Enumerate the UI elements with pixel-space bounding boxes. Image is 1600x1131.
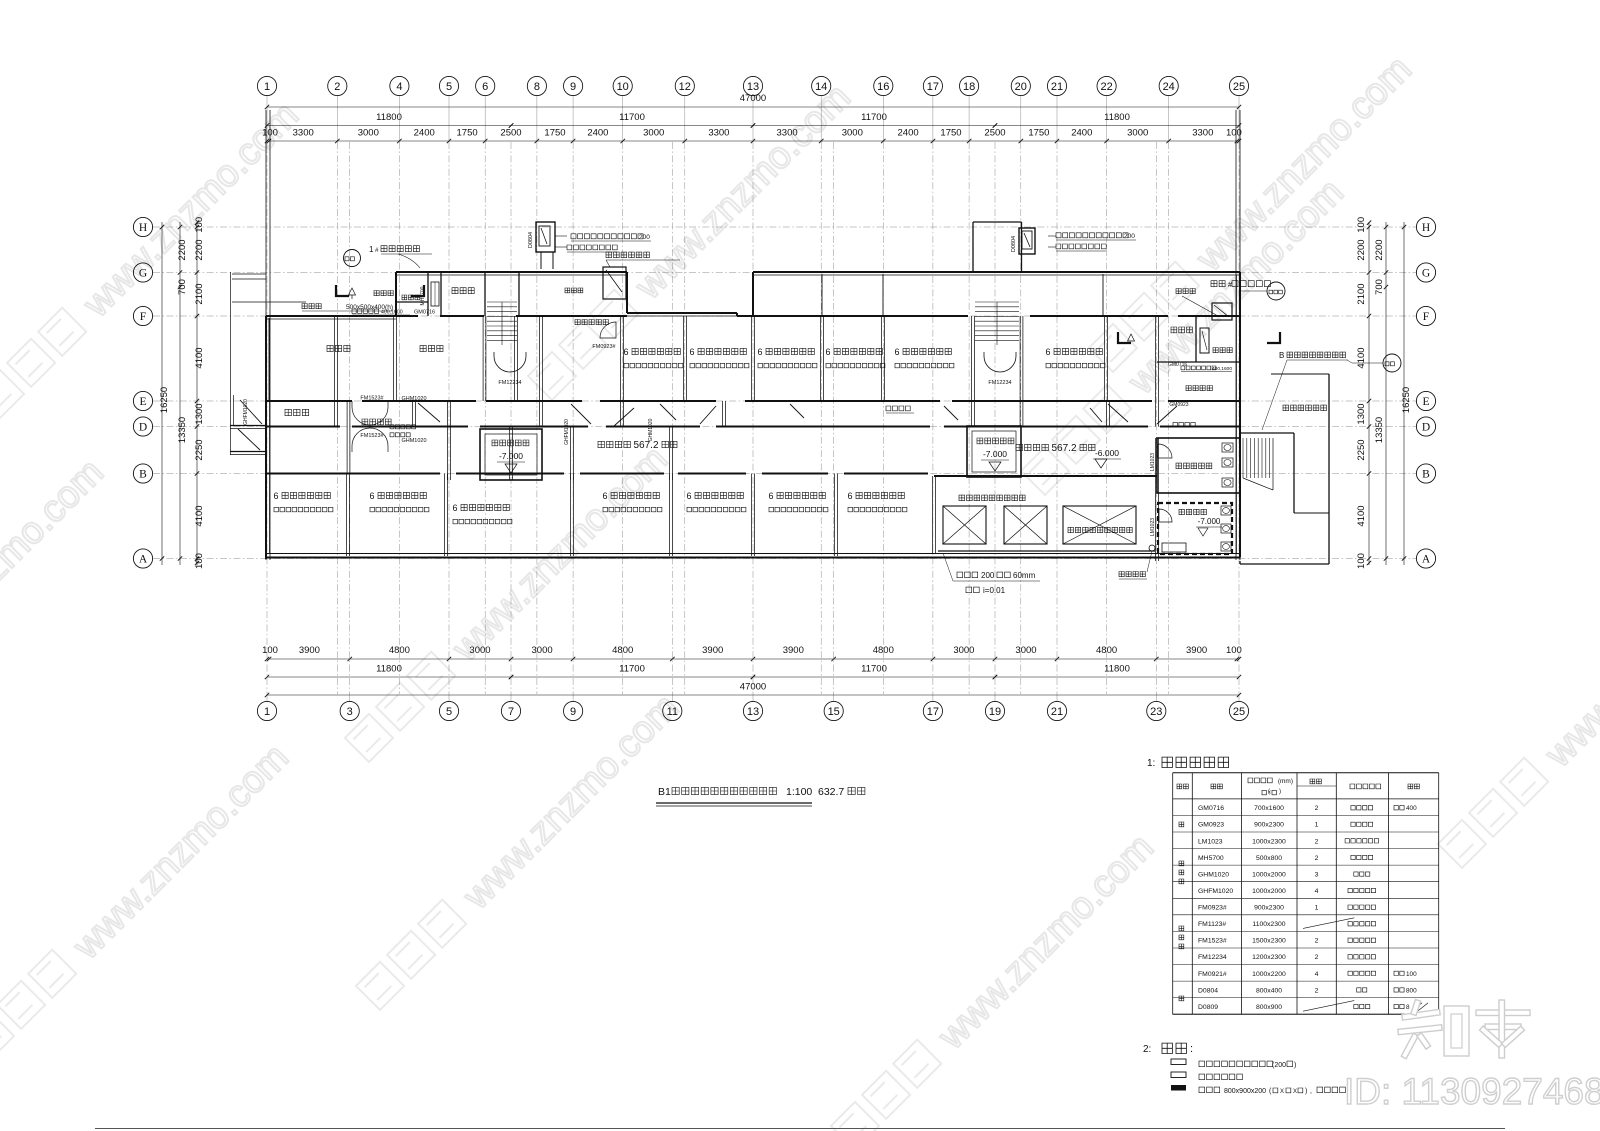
upper-center vent labels xyxy=(571,234,643,239)
svg-text:24: 24 xyxy=(1163,81,1175,93)
svg-text:10: 10 xyxy=(617,81,629,93)
svg-text:400,1600: 400,1600 xyxy=(1212,366,1232,372)
svg-text:15: 15 xyxy=(828,706,840,718)
svg-text:23: 23 xyxy=(1150,706,1162,718)
svg-text:5: 5 xyxy=(446,706,452,718)
svg-text:700x1600: 700x1600 xyxy=(1254,805,1284,812)
svg-text:11800: 11800 xyxy=(376,112,402,123)
svg-text:LM1023: LM1023 xyxy=(1150,518,1156,536)
B-A bottom room partitions xyxy=(346,474,348,557)
svg-text:GM0716: GM0716 xyxy=(1198,805,1224,812)
svg-text:1000x2000: 1000x2000 xyxy=(1252,888,1286,895)
svg-text:GHM1020: GHM1020 xyxy=(1198,871,1229,878)
vent shaft axis 8-9 xyxy=(536,222,555,252)
svg-text:LM1023: LM1023 xyxy=(1150,453,1156,471)
svg-text:2500: 2500 xyxy=(500,128,521,139)
svg-text:567.2: 567.2 xyxy=(633,440,658,451)
svg-text:3900: 3900 xyxy=(783,645,804,656)
stair core axes 18-20 doglegs xyxy=(972,222,974,272)
svg-text:GHM1020: GHM1020 xyxy=(401,396,426,402)
svg-text:13350: 13350 xyxy=(1374,417,1385,443)
svg-text:D: D xyxy=(139,422,147,434)
svg-text:6: 6 xyxy=(847,491,852,501)
svg-text:6: 6 xyxy=(452,503,457,513)
svg-text:MH5700: MH5700 xyxy=(1198,855,1224,862)
svg-text:-6.000: -6.000 xyxy=(1095,448,1119,458)
svg-text:632.7: 632.7 xyxy=(818,786,844,798)
svg-text:FM12234: FM12234 xyxy=(988,380,1011,386)
svg-text:19: 19 xyxy=(989,706,1001,718)
svg-text:F: F xyxy=(1423,311,1429,323)
svg-text:G: G xyxy=(1422,268,1430,280)
svg-text:FM1523#: FM1523# xyxy=(360,396,384,402)
drain labels xyxy=(957,572,978,578)
svg-text:11700: 11700 xyxy=(861,112,887,123)
svg-text:GHFM1020: GHFM1020 xyxy=(243,399,249,425)
svg-text:1750: 1750 xyxy=(940,128,961,139)
svg-text:25: 25 xyxy=(1233,706,1245,718)
grid horizontal axis lines xyxy=(153,226,1416,228)
svg-text:3000: 3000 xyxy=(953,645,974,656)
corridor labels xyxy=(362,419,391,425)
svg-text:FM1523#: FM1523# xyxy=(1198,938,1227,945)
blast cable shaft label xyxy=(606,252,649,258)
diagonal watermark layer (under drawing) xyxy=(0,93,307,424)
svg-text:4100: 4100 xyxy=(194,505,205,526)
svg-text:9: 9 xyxy=(570,706,576,718)
toilet room male (dashed wartime) xyxy=(1158,503,1232,554)
svg-text:GM0716: GM0716 xyxy=(414,310,435,316)
protection unit labels xyxy=(598,441,630,447)
svg-text:(mm): (mm) xyxy=(1278,778,1293,785)
svg-text:2: 2 xyxy=(1315,838,1319,845)
svg-text:FM12234: FM12234 xyxy=(1198,954,1227,961)
svg-text:2250: 2250 xyxy=(194,439,205,460)
svg-text:4: 4 xyxy=(396,81,402,93)
svg-text:6: 6 xyxy=(686,491,691,501)
svg-text:3900: 3900 xyxy=(299,645,320,656)
svg-text:200: 200 xyxy=(981,571,995,580)
interior walls: row F-E partitions xyxy=(334,316,336,401)
top axis bubbles xyxy=(257,76,276,95)
section cut marks right pair xyxy=(1118,332,1131,343)
svg-text:6: 6 xyxy=(894,347,899,357)
svg-text:6: 6 xyxy=(623,347,628,357)
svg-text:200: 200 xyxy=(1124,233,1135,240)
svg-text:GHFM1020: GHFM1020 xyxy=(564,419,570,445)
elevator pit 1 xyxy=(480,429,542,480)
svg-text:3300: 3300 xyxy=(777,128,798,139)
svg-text:3900: 3900 xyxy=(702,645,723,656)
svg-text:GM0923: GM0923 xyxy=(1169,402,1188,408)
svg-text:11800: 11800 xyxy=(376,664,402,675)
svg-text:FM1123#: FM1123# xyxy=(1198,921,1226,928)
B wall segments (room tops) xyxy=(266,473,440,475)
svg-text:X: X xyxy=(1293,1089,1297,1095)
svg-text:2200: 2200 xyxy=(1374,239,1385,260)
svg-text:4100: 4100 xyxy=(194,347,205,368)
svg-text:G: G xyxy=(139,268,147,280)
svg-text:60mm: 60mm xyxy=(1013,571,1036,580)
svg-text:2400: 2400 xyxy=(414,128,435,139)
svg-text:GHFM1020: GHFM1020 xyxy=(1198,888,1233,895)
svg-text:-7.000: -7.000 xyxy=(499,451,523,461)
svg-text:2:: 2: xyxy=(1143,1044,1151,1055)
svg-text:700: 700 xyxy=(1374,279,1385,295)
svg-text:100: 100 xyxy=(194,553,205,569)
svg-text:100: 100 xyxy=(1226,128,1242,139)
bottom separator line xyxy=(95,1128,1505,1130)
svg-text:9: 9 xyxy=(570,81,576,93)
svg-text:1300: 1300 xyxy=(194,403,205,424)
svg-text:2: 2 xyxy=(334,81,340,93)
svg-text:47000: 47000 xyxy=(740,93,766,104)
left vertical dimension chains xyxy=(161,222,163,565)
svg-text:#: # xyxy=(375,247,379,254)
svg-text:400,1600: 400,1600 xyxy=(381,310,403,316)
svg-text:GM0923: GM0923 xyxy=(1198,822,1224,829)
svg-text:D0804: D0804 xyxy=(1198,987,1218,994)
bottom dimension chains xyxy=(267,658,1239,660)
svg-text:13: 13 xyxy=(747,706,759,718)
svg-text:2: 2 xyxy=(1315,954,1319,961)
svg-text:16: 16 xyxy=(877,81,889,93)
svg-text:1: 1 xyxy=(369,245,374,254)
svg-text::: : xyxy=(1190,1043,1193,1055)
svg-text:FM12234: FM12234 xyxy=(498,380,521,386)
svg-text:D0809: D0809 xyxy=(1198,1004,1218,1011)
svg-text:17: 17 xyxy=(927,81,939,93)
svg-text:100: 100 xyxy=(1356,553,1367,569)
znzmo logo bottom right xyxy=(1402,1009,1440,1020)
svg-text:7: 7 xyxy=(508,706,514,718)
svg-text:1750: 1750 xyxy=(1028,128,1049,139)
svg-text:3300: 3300 xyxy=(708,128,729,139)
svg-text:16250: 16250 xyxy=(1401,387,1412,413)
svg-text:12: 12 xyxy=(679,81,691,93)
room labels top row xyxy=(327,345,350,351)
svg-text:3: 3 xyxy=(347,706,353,718)
stair double doors FM1223 xyxy=(494,352,510,372)
svg-text:100: 100 xyxy=(1406,971,1417,978)
svg-text:4100: 4100 xyxy=(1356,505,1367,526)
svg-text:11700: 11700 xyxy=(861,664,887,675)
left axis bubbles xyxy=(133,217,152,236)
svg-text:700: 700 xyxy=(177,279,188,295)
svg-text:x: x xyxy=(1268,790,1271,796)
svg-text:13350: 13350 xyxy=(177,417,188,443)
svg-text:100: 100 xyxy=(262,645,278,656)
sump label 集水坑500x500x400(h) xyxy=(302,304,321,309)
svg-text:D0804: D0804 xyxy=(528,232,534,248)
svg-text:2200: 2200 xyxy=(194,239,205,260)
svg-text:A: A xyxy=(1422,554,1431,566)
svg-text:1: 1 xyxy=(264,706,270,718)
svg-text:B: B xyxy=(1422,469,1430,481)
svg-text:900x2300: 900x2300 xyxy=(1254,822,1284,829)
svg-text:4800: 4800 xyxy=(389,645,410,656)
svg-text:3000: 3000 xyxy=(643,128,664,139)
svg-text:i=0.01: i=0.01 xyxy=(983,586,1006,595)
svg-text:6: 6 xyxy=(768,491,773,501)
zone D-B partial walls xyxy=(447,427,449,481)
svg-text:6: 6 xyxy=(757,347,762,357)
svg-text:1000x2200: 1000x2200 xyxy=(1252,971,1286,978)
svg-text:6: 6 xyxy=(1045,347,1050,357)
svg-text:800x400: 800x400 xyxy=(1256,987,1282,994)
svg-text:LM1023: LM1023 xyxy=(1198,838,1223,845)
svg-text:18: 18 xyxy=(963,81,975,93)
svg-text:1: 1 xyxy=(1315,905,1319,912)
svg-text:11800: 11800 xyxy=(1104,664,1130,675)
svg-text:11700: 11700 xyxy=(619,112,645,123)
svg-text:FM1523#: FM1523# xyxy=(360,433,384,439)
corridor short partitions xyxy=(334,401,336,427)
svg-text:1200x2300: 1200x2300 xyxy=(1252,954,1286,961)
svg-text:17: 17 xyxy=(927,706,939,718)
svg-text:GM0716: GM0716 xyxy=(1168,362,1187,368)
vent shaft axis 18-20 xyxy=(1019,228,1035,254)
svg-text:8: 8 xyxy=(534,81,540,93)
svg-text:3000: 3000 xyxy=(1015,645,1036,656)
svg-text:): ) xyxy=(1305,1088,1307,1095)
svg-text:FM0921#: FM0921# xyxy=(1198,971,1227,978)
top dimension chains xyxy=(267,106,1239,108)
svg-text:1000x2300: 1000x2300 xyxy=(1252,838,1286,845)
outside stair treads xyxy=(1242,438,1244,478)
svg-text:2500: 2500 xyxy=(984,128,1005,139)
svg-text:4: 4 xyxy=(1315,888,1319,895)
svg-text:100: 100 xyxy=(194,217,205,233)
svg-text:100: 100 xyxy=(1356,217,1367,233)
svg-text:4800: 4800 xyxy=(1096,645,1117,656)
svg-text:1100x2300: 1100x2300 xyxy=(1252,921,1285,928)
svg-text:6: 6 xyxy=(689,347,694,357)
svg-text:6: 6 xyxy=(482,81,488,93)
svg-text:3000: 3000 xyxy=(1127,128,1148,139)
svg-text:2: 2 xyxy=(1315,855,1319,862)
svg-text:GHM1020: GHM1020 xyxy=(401,438,426,444)
svg-text:2400: 2400 xyxy=(898,128,919,139)
svg-text:B1: B1 xyxy=(658,786,671,798)
bottom axis bubbles xyxy=(257,701,276,720)
svg-text:H: H xyxy=(139,222,147,234)
svg-text:): ) xyxy=(1279,789,1281,795)
svg-text:-7.000: -7.000 xyxy=(983,449,1007,459)
door window schedule table xyxy=(1172,773,1174,1015)
svg-text:1500x2300: 1500x2300 xyxy=(1252,938,1286,945)
svg-text:3300: 3300 xyxy=(1192,128,1213,139)
svg-text:2400: 2400 xyxy=(1071,128,1092,139)
svg-text:47000: 47000 xyxy=(740,682,766,693)
svg-text:6: 6 xyxy=(602,491,607,501)
svg-text:X: X xyxy=(1280,1089,1284,1095)
svg-text:2400: 2400 xyxy=(587,128,608,139)
svg-text:2100: 2100 xyxy=(194,283,205,304)
svg-text:3000: 3000 xyxy=(469,645,490,656)
svg-text:2: 2 xyxy=(1315,987,1319,994)
svg-text:6: 6 xyxy=(273,491,278,501)
svg-text:900x2300: 900x2300 xyxy=(1254,905,1284,912)
svg-text:D0804: D0804 xyxy=(1011,236,1017,252)
right block small rooms xyxy=(1171,327,1192,333)
svg-text:20: 20 xyxy=(1015,81,1027,93)
svg-text:2: 2 xyxy=(1315,938,1319,945)
svg-text:E: E xyxy=(1422,396,1429,408)
labels above right block xyxy=(1211,281,1225,287)
svg-text:1: 1 xyxy=(1315,822,1319,829)
svg-text:1:100: 1:100 xyxy=(786,786,812,798)
corridor walls E and D xyxy=(266,400,352,402)
svg-text:500x800: 500x800 xyxy=(1256,855,1282,862)
svg-text:H: H xyxy=(1422,222,1430,234)
stair core axes 6-8 xyxy=(484,272,486,316)
svg-text:16250: 16250 xyxy=(159,387,170,413)
svg-text:D: D xyxy=(1422,422,1430,434)
svg-text:14: 14 xyxy=(815,81,827,93)
building outer walls xyxy=(265,110,267,560)
svg-text:-7.000: -7.000 xyxy=(1198,517,1221,526)
svg-text:1750: 1750 xyxy=(544,128,565,139)
svg-text:4: 4 xyxy=(1315,971,1319,978)
svg-text:11: 11 xyxy=(667,706,678,718)
grid vertical axis lines xyxy=(266,142,268,694)
svg-text:,: , xyxy=(1310,1088,1312,1095)
svg-text:6: 6 xyxy=(825,347,830,357)
svg-text:2100: 2100 xyxy=(1356,283,1367,304)
swing doors corridor xyxy=(352,401,370,425)
svg-text:B: B xyxy=(139,469,147,481)
svg-text:22: 22 xyxy=(1100,81,1112,93)
svg-text:800: 800 xyxy=(1406,987,1417,994)
blast cable shaft box xyxy=(603,267,626,299)
svg-text:#: # xyxy=(1228,282,1232,289)
svg-text:2250: 2250 xyxy=(1356,439,1367,460)
svg-text:3000: 3000 xyxy=(358,128,379,139)
svg-text:11800: 11800 xyxy=(1104,112,1130,123)
right axis bubbles xyxy=(1416,217,1435,236)
toilet room female xyxy=(1157,438,1240,493)
svg-text:100: 100 xyxy=(1226,645,1242,656)
svg-text:E: E xyxy=(139,396,146,408)
svg-text:200: 200 xyxy=(639,234,650,241)
svg-text:(200: (200 xyxy=(1272,1062,1286,1069)
svg-text:F: F xyxy=(140,311,146,323)
svg-text:100: 100 xyxy=(262,128,278,139)
svg-text:3000: 3000 xyxy=(842,128,863,139)
section cut marks upper-left xyxy=(336,285,349,296)
svg-text:4100: 4100 xyxy=(1356,347,1367,368)
svg-text:400: 400 xyxy=(1406,805,1417,812)
svg-text:1:: 1: xyxy=(1147,758,1155,769)
svg-text:3300: 3300 xyxy=(293,128,314,139)
svg-text:21: 21 xyxy=(1051,706,1063,718)
svg-text:11700: 11700 xyxy=(619,664,645,675)
svg-text:25: 25 xyxy=(1233,81,1245,93)
outside exit structures right xyxy=(1240,432,1294,434)
svg-text:5: 5 xyxy=(446,81,452,93)
svg-text:3000: 3000 xyxy=(532,645,553,656)
svg-text:13: 13 xyxy=(747,81,759,93)
svg-text:FM0923#: FM0923# xyxy=(1198,905,1227,912)
svg-text:8: 8 xyxy=(1406,1004,1410,1011)
door lintel label 400,1600 + GM0716 xyxy=(352,309,379,313)
svg-text:4800: 4800 xyxy=(873,645,894,656)
water tank room with X boxes xyxy=(959,495,1025,501)
svg-text:800x900: 800x900 xyxy=(1256,1004,1282,1011)
svg-text:6: 6 xyxy=(369,491,374,501)
svg-text:567.2: 567.2 xyxy=(1051,443,1076,454)
elevator pit 2 xyxy=(967,426,1021,477)
svg-text:ID: 1130927468: ID: 1130927468 xyxy=(1344,1071,1600,1112)
svg-text:1300: 1300 xyxy=(1356,403,1367,424)
svg-text:2200: 2200 xyxy=(1356,239,1367,260)
F-line wall segments across plan xyxy=(396,315,418,317)
svg-text:1: 1 xyxy=(264,81,270,93)
svg-text:2: 2 xyxy=(1315,805,1319,812)
svg-text:800x900x200: 800x900x200 xyxy=(1224,1088,1266,1095)
svg-text:4800: 4800 xyxy=(612,645,633,656)
svg-text:GHM1020: GHM1020 xyxy=(648,418,654,441)
svg-text:B: B xyxy=(1279,351,1284,360)
svg-text:1750: 1750 xyxy=(457,128,478,139)
svg-text:2200: 2200 xyxy=(177,239,188,260)
svg-text:): ) xyxy=(1294,1062,1296,1069)
left passage protrusion xyxy=(230,425,266,427)
upper-right vent labels with underline xyxy=(1056,233,1128,238)
svg-text:FM0923#: FM0923# xyxy=(592,344,616,350)
upper-left core rooms xyxy=(427,272,429,316)
right vertical dimension chains xyxy=(1403,222,1405,565)
svg-text:21: 21 xyxy=(1051,81,1063,93)
svg-text:1000x2000: 1000x2000 xyxy=(1252,871,1286,878)
svg-text:3: 3 xyxy=(1315,871,1319,878)
svg-text:A: A xyxy=(139,554,148,566)
svg-text:3900: 3900 xyxy=(1186,645,1207,656)
